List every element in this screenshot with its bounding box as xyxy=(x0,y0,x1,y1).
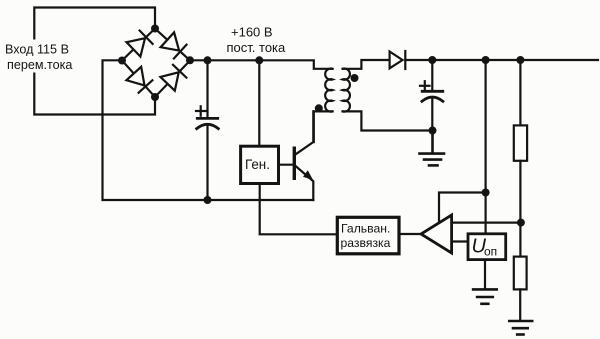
wire Ген output to transistor base xyxy=(279,164,293,166)
node C2 bottom junction xyxy=(429,127,437,135)
wire Ген top feed from +160V rail xyxy=(258,60,260,146)
wire output +rail xyxy=(405,59,598,61)
diode VD3 bridge bottom-left xyxy=(122,61,155,98)
svg-text:Ген.: Ген. xyxy=(245,157,270,172)
diode VD4 bridge bottom-right xyxy=(155,61,190,98)
svg-text:Вход 115 В: Вход 115 В xyxy=(5,43,69,57)
wire op-amp output to isolation box xyxy=(399,233,421,235)
node bridge top xyxy=(151,25,159,33)
wire left bridge node stub and down-rail to bottom bus xyxy=(103,60,314,200)
svg-text:пост. тока: пост. тока xyxy=(227,40,287,55)
node secondary phase dot xyxy=(351,74,359,82)
wire secondary bottom return xyxy=(343,111,433,130)
node sense junction on rail xyxy=(482,56,490,64)
generator box U1 Ген. xyxy=(241,146,279,183)
diode VD5 output rectifier xyxy=(390,51,406,69)
ground GND1 under C2 xyxy=(420,131,445,166)
reference box U3 Uref xyxy=(468,234,506,260)
node divider top junction xyxy=(516,56,524,64)
wire Uref to ground xyxy=(484,260,486,289)
wire node down to Uref box xyxy=(485,193,487,234)
ground GND2 under Uref xyxy=(473,289,497,303)
wire sense line from rail down xyxy=(485,60,487,193)
node divider tap junction xyxy=(517,219,525,227)
label input line 2 xyxy=(7,58,72,72)
wire op-amp lower input to Uref xyxy=(452,240,468,242)
svg-text:перем.тока: перем.тока xyxy=(7,58,72,72)
label input line 1 xyxy=(3,40,78,73)
node bridge bottom xyxy=(151,93,159,101)
node bridge right xyxy=(186,56,194,64)
wire +160V rail (bridge right node to transformer primary) xyxy=(190,60,333,69)
node primary phase dot xyxy=(315,104,323,112)
svg-text:развязка: развязка xyxy=(341,236,391,250)
resistor R1 upper divider xyxy=(514,60,527,257)
wire Ген bottom to isolation box xyxy=(260,184,338,235)
resistor R2 lower divider xyxy=(514,257,527,320)
capacitor C1 input filter xyxy=(196,60,218,200)
ground GND3 under R2 xyxy=(509,321,532,335)
wire primary bottom to collector xyxy=(314,111,333,142)
node C1 top junction xyxy=(204,56,212,64)
wire from node to op-amp top edge xyxy=(439,193,486,222)
diode VD1 bridge top-left xyxy=(122,29,155,61)
wire input loop (AC source rectangle) xyxy=(34,8,155,115)
transformer T1 secondary winding xyxy=(343,69,350,112)
node op-amp feed junction xyxy=(482,189,490,197)
wire divider tap to op-amp input xyxy=(452,222,521,224)
node C1 bottom junction xyxy=(204,196,212,204)
op-amp A1 comparator xyxy=(421,215,452,253)
transformer T1 primary winding xyxy=(325,69,332,112)
svg-text:оп: оп xyxy=(484,245,497,259)
diode VD2 bridge top-right xyxy=(155,29,190,61)
node bridge left xyxy=(118,57,126,65)
transistor VT1 collector xyxy=(296,111,314,154)
capacitor C2 output filter xyxy=(420,60,443,131)
transistor VT1 emitter with arrow xyxy=(296,166,314,200)
svg-text:+160 В: +160 В xyxy=(231,25,273,40)
svg-text:Гальван.: Гальван. xyxy=(341,222,390,236)
node Ген feed junction xyxy=(255,56,263,64)
transistor VT1 base bar xyxy=(293,147,296,181)
isolation box U2 Гальван. развязка xyxy=(337,217,399,254)
wire secondary top to output diode xyxy=(343,60,390,69)
node C2 top junction xyxy=(428,56,436,64)
